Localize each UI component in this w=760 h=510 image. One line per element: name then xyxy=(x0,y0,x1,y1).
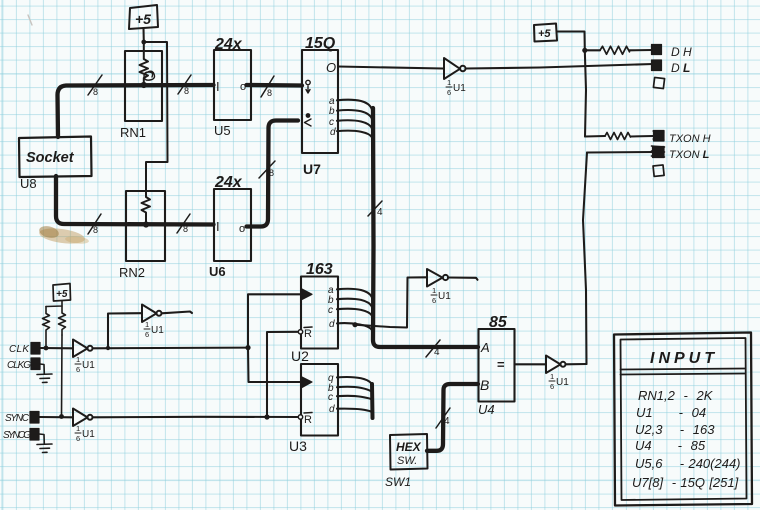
svg-text:8: 8 xyxy=(183,224,188,234)
pin select symbol (U7 left, circle+arrow) xyxy=(306,80,310,93)
wire U3.d to bundle xyxy=(337,409,372,413)
svg-text:RN2: RN2 xyxy=(119,265,145,280)
svg-text:SYNCG: SYNCG xyxy=(3,430,31,441)
svg-text:+5: +5 xyxy=(135,11,151,27)
bus slash 8 (left of RN1) xyxy=(88,75,102,97)
wire CLK line to U2/U3 branch xyxy=(93,347,249,350)
wire +5 to resistor pair xyxy=(46,301,62,307)
wire resistor to TXON-H pad xyxy=(631,135,654,138)
INPUT table outer border xyxy=(614,333,752,506)
inverter U1e (d tap) xyxy=(427,269,448,287)
wire to TXON-H resistor xyxy=(585,135,605,138)
label 1/6 U1 (U1f) xyxy=(549,372,569,391)
svg-text:U3: U3 xyxy=(289,438,307,454)
svg-text:U8: U8 xyxy=(20,176,37,191)
bus wire: mux bundle down to comparator A xyxy=(373,108,478,347)
wire U4 output to inverter U1f xyxy=(515,363,546,365)
node: RN2 output on bus xyxy=(143,221,149,227)
bus slash 8 (RN1 to U5) xyxy=(178,75,191,96)
svg-text:U6: U6 xyxy=(209,264,226,279)
inverter U1c (spare) xyxy=(142,305,162,323)
svg-text:d: d xyxy=(329,319,335,330)
ground (CLKG) xyxy=(37,374,52,383)
svg-text:15Q: 15Q xyxy=(305,35,336,52)
wire U7.O to inverter xyxy=(338,67,443,69)
power flag +5 (top) xyxy=(129,5,158,42)
wire TXON-L signal riser (from U4 inverter) xyxy=(583,153,587,365)
pad D-L xyxy=(652,60,662,71)
resistor network RN2 box xyxy=(126,191,165,261)
node: SYNC pull-up junction xyxy=(59,414,64,419)
svg-text:Socket: Socket xyxy=(26,150,75,166)
svg-text:4: 4 xyxy=(444,416,450,427)
bus stub: U3 output bundle xyxy=(370,384,375,418)
pin clock arrow (U3) xyxy=(302,377,312,388)
svg-text:b: b xyxy=(329,106,335,117)
svg-text:U4: U4 xyxy=(478,402,495,417)
pad SYNC xyxy=(30,412,39,424)
bus slash 8 (lower, left) xyxy=(88,214,101,235)
svg-text:d: d xyxy=(330,127,336,138)
wire inverter to D-L pad xyxy=(466,64,654,69)
bus wire: U5 output to U7 xyxy=(247,83,303,88)
hex switch SW1 box xyxy=(390,434,428,470)
label 1/6 U1 (U1d) xyxy=(75,424,95,443)
wire inverter U1f to TXON riser xyxy=(566,363,587,365)
svg-text:U4 - 85: U4 - 85 xyxy=(635,438,706,453)
svg-text:SYNC: SYNC xyxy=(5,413,30,424)
wire TXON-L to pad xyxy=(587,151,655,154)
svg-text:R: R xyxy=(304,414,312,426)
wire +5 rail down to TXON-H pull-up xyxy=(585,50,586,136)
bus wire: HEX switch to comparator B xyxy=(427,384,478,451)
node: U2.d tap xyxy=(352,322,357,327)
svg-text:D L: D L xyxy=(671,61,690,75)
svg-text:o: o xyxy=(239,223,245,235)
svg-text:RN1,2 - 2K: RN1,2 - 2K xyxy=(638,388,714,403)
wire U2.b to bundle xyxy=(337,299,372,310)
svg-text:24x: 24x xyxy=(214,36,243,53)
svg-text:O: O xyxy=(326,60,336,75)
pin R-bar (U2) xyxy=(298,327,312,340)
svg-text:I: I xyxy=(216,219,220,234)
wire U7.d to bundle xyxy=(337,131,372,140)
resistor (D-H pull-up) xyxy=(600,46,630,54)
label 1/6 U1 (U1e) xyxy=(431,286,451,305)
wire SYNCG to ground xyxy=(39,434,44,444)
svg-text:R: R xyxy=(304,328,312,340)
svg-text:o: o xyxy=(240,81,246,93)
inverter U1f (U4 output) xyxy=(546,356,566,374)
counter U2 box xyxy=(301,277,338,349)
comparator U4 box xyxy=(479,329,515,402)
wire inverter U1e output stub xyxy=(448,278,478,280)
wire CLK pad to inverter xyxy=(40,347,72,349)
svg-text:U2: U2 xyxy=(291,348,309,364)
wire SYNC line to U3 reset xyxy=(93,416,298,419)
svg-text:TXON L: TXON L xyxy=(669,149,710,161)
node: CLK tap for spare inverter xyxy=(106,346,110,350)
bus slash 4 (B input) xyxy=(436,408,450,428)
pencil scuff top-left xyxy=(28,15,32,25)
inverter U1d (SYNC) xyxy=(73,409,93,427)
pad CLK xyxy=(31,343,40,355)
pad CLKG xyxy=(31,358,40,370)
wire CLK to U2 clock xyxy=(248,294,302,347)
node: CLK pull-up junction xyxy=(44,346,49,351)
bus slash 8 (U5 to U7) xyxy=(261,76,274,98)
svg-text:24x: 24x xyxy=(214,174,243,191)
resistor (CLK pull-up) xyxy=(43,307,50,348)
svg-text:d: d xyxy=(329,404,335,415)
svg-text:c: c xyxy=(328,392,333,403)
svg-text:8: 8 xyxy=(267,88,272,98)
resistor in RN1 xyxy=(140,42,149,84)
svg-text:+5: +5 xyxy=(56,289,68,300)
scribble blob on RN1 resistor xyxy=(144,71,155,80)
pad TXON-H xyxy=(654,131,665,142)
wire U7.b to bundle xyxy=(337,110,372,122)
svg-text:A: A xyxy=(480,340,490,355)
svg-text:U5: U5 xyxy=(214,123,231,138)
wire SYNC pull-up down xyxy=(61,335,64,417)
svg-text:RN1: RN1 xyxy=(120,125,146,140)
svg-text:8: 8 xyxy=(269,168,274,178)
svg-text:4: 4 xyxy=(434,347,440,358)
bus wire: socket bottom to lower data bus (8) xyxy=(56,176,214,225)
stain (coffee smudge) xyxy=(38,224,89,246)
svg-text:8: 8 xyxy=(93,225,98,235)
svg-text:+5: +5 xyxy=(538,28,551,40)
wire SYNC to U2 reset xyxy=(267,332,298,417)
wire U2.c to bundle xyxy=(337,309,372,318)
svg-text:SW.: SW. xyxy=(397,455,417,467)
svg-text:=: = xyxy=(497,357,505,372)
bus wire: socket top to data bus (8) xyxy=(58,85,214,137)
wire SYNC pad to inverter xyxy=(39,416,72,418)
buffer U6 box xyxy=(214,189,251,261)
svg-text:CLKG: CLKG xyxy=(7,360,31,371)
wire U2.d to bundle xyxy=(337,323,372,332)
label 1/6 U1 (U1a) xyxy=(446,78,466,97)
svg-text:8: 8 xyxy=(93,87,98,97)
svg-text:B: B xyxy=(480,377,489,393)
bus slash 8 (lower, RN2 to U6) xyxy=(177,214,190,234)
wire +5 branch to RN2 xyxy=(144,42,168,191)
resistor (SYNC pull-up) xyxy=(59,306,66,335)
inverter U1b (CLK) xyxy=(73,340,93,358)
wire U3.q to bundle xyxy=(337,377,372,386)
svg-text:U7[8] - 15Q [251]: U7[8] - 15Q [251] xyxy=(632,475,739,490)
svg-text:I: I xyxy=(216,79,220,94)
ground (SYNCG) xyxy=(37,444,52,453)
wire U3.c to bundle xyxy=(337,396,372,400)
svg-text:U1 - 04: U1 - 04 xyxy=(636,405,706,420)
bus slash 4 (bundle) xyxy=(368,201,383,218)
svg-text:c: c xyxy=(328,305,333,316)
wire spare inverter output stub xyxy=(162,312,193,314)
pad SYNCG xyxy=(30,429,39,441)
svg-text:4: 4 xyxy=(377,207,383,218)
pin R-bar (U3) xyxy=(298,413,312,427)
bus slash 8 (on riser) xyxy=(259,161,275,178)
multiplexer U7 box xyxy=(302,50,338,153)
wire CLKG to ground xyxy=(40,364,44,374)
node: CLK branch junction xyxy=(245,345,250,350)
node: RN1 output on bus xyxy=(141,82,147,88)
wire CLK to U3 clock xyxy=(248,348,302,382)
resistor network RN1 box xyxy=(125,51,162,121)
power flag +5 (CLK pull-ups) xyxy=(53,284,71,302)
svg-text:TXON H: TXON H xyxy=(669,133,711,145)
label 1/6 U1 (U1b) xyxy=(75,355,95,374)
bus wire: U6 output rising to U7 clock xyxy=(247,121,299,227)
INPUT table title rule xyxy=(621,369,746,375)
pin clock arrow (U2) xyxy=(302,289,312,300)
wire U3.b to bundle xyxy=(337,387,372,393)
svg-text:U7: U7 xyxy=(303,161,321,177)
node: pull-up junction xyxy=(582,48,587,53)
INPUT table inner border xyxy=(621,338,747,500)
wire U7.a to bundle xyxy=(337,100,372,113)
resistor (TXON-H pull-up) xyxy=(605,133,631,140)
svg-text:U5,6 - 240(244): U5,6 - 240(244) xyxy=(635,456,741,471)
wire junction to resistor xyxy=(585,49,600,51)
wire +5 to junction xyxy=(557,32,585,51)
label 1/6 U1 (U1c) xyxy=(144,320,164,339)
inverter U1a (after U7.O) xyxy=(444,58,465,79)
socket U8 box xyxy=(19,137,92,178)
wire d-tap to inverter U1e xyxy=(355,277,426,327)
svg-text:CLK: CLK xyxy=(9,344,30,355)
pad D-H xyxy=(652,45,662,55)
unused pad below TXON-L xyxy=(653,165,664,176)
pad TXON-L xyxy=(653,147,665,158)
svg-text:SW1: SW1 xyxy=(385,475,411,489)
resistor in RN2 xyxy=(142,191,151,224)
node: SYNC branch junction xyxy=(264,414,269,419)
wire CLK tap up to spare inverter xyxy=(108,313,141,348)
node: +5 junction xyxy=(141,40,146,45)
wire resistor to D-H pad xyxy=(630,49,653,51)
counter U3 box xyxy=(301,364,338,436)
pin clock K (U7 left) xyxy=(305,114,312,126)
wire U7.c to bundle xyxy=(337,120,372,131)
svg-text:D H: D H xyxy=(671,45,692,59)
svg-text:INPUT: INPUT xyxy=(650,350,718,367)
unused pad below D-L xyxy=(653,77,664,88)
wire U2.a to bundle xyxy=(337,289,372,301)
svg-text:U2,3 - 163: U2,3 - 163 xyxy=(635,422,715,437)
buffer U5 box xyxy=(214,50,251,120)
svg-text:HEX: HEX xyxy=(396,440,422,454)
svg-text:8: 8 xyxy=(184,86,189,96)
power flag +5 (right) xyxy=(534,24,557,42)
bus slash 4 (A input) xyxy=(426,340,440,358)
